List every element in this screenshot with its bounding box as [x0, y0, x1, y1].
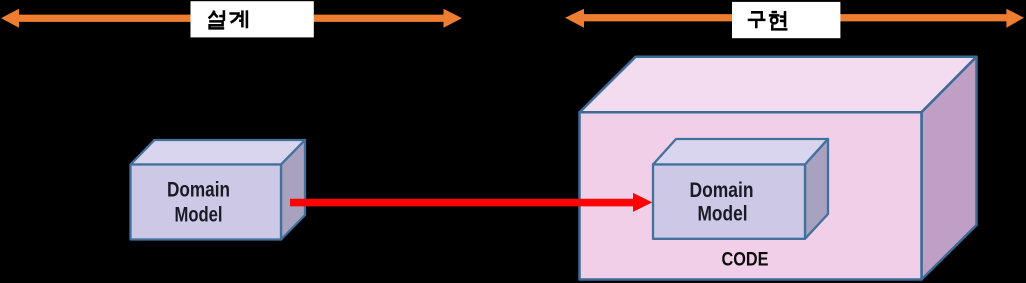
cube big CODE : right face [922, 57, 977, 280]
cube left Domain Model : front face [131, 165, 282, 240]
cube big CODE : front face [580, 112, 922, 279]
svg-text:Model: Model [698, 202, 748, 226]
label box 구현 [732, 2, 840, 38]
glyph 계 [229, 10, 247, 28]
arrow red mapping [290, 193, 652, 212]
cube big CODE : top face [580, 57, 977, 113]
cube left Domain Model : right face [281, 140, 305, 240]
cube left Domain Model : top face [131, 140, 306, 165]
glyph 구 [748, 12, 766, 28]
arrow orange implementation axis (double headed) [565, 9, 1024, 28]
arrow orange design axis (double headed) [1, 9, 462, 28]
glyph 설 [209, 10, 225, 28]
svg-text:Model: Model [175, 202, 223, 226]
glyph 현 [769, 11, 788, 29]
cube inner Domain Model : front face [653, 165, 805, 239]
svg-text:CODE: CODE [722, 250, 769, 271]
cube inner Domain Model : right face [805, 139, 828, 239]
label box 설계 [191, 1, 314, 37]
svg-text:Domain: Domain [167, 178, 230, 202]
svg-text:Domain: Domain [690, 178, 754, 202]
cube inner Domain Model : top face [653, 139, 828, 165]
